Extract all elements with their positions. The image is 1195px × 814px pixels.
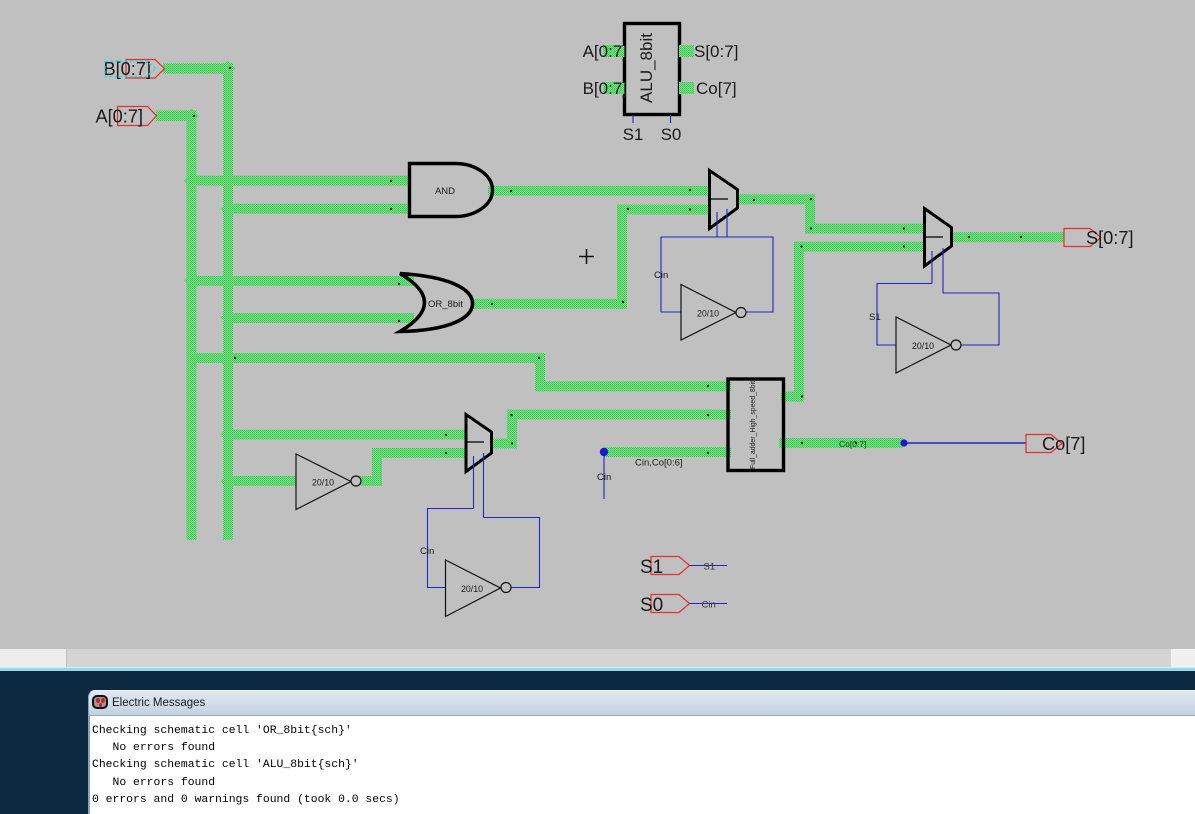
export S1: [651, 557, 690, 575]
wire B export to bus: [163, 63, 233, 74]
wire inverter I4 output: [360, 476, 382, 486]
pin stub S[0:7]: [679, 45, 694, 57]
svg-text:S1: S1: [623, 125, 644, 144]
cursor cross: [579, 249, 594, 264]
svg-text:20/10: 20/10: [312, 478, 334, 488]
wire mux M1 bottom input: [794, 242, 924, 252]
inverter I2 (Cin): [681, 285, 736, 341]
wire mux M2 lower input: [617, 205, 709, 215]
wire blue mux M3 select loop: [428, 509, 540, 588]
export Co[7]: [1026, 435, 1062, 453]
svg-text:A[0:7]: A[0:7]: [583, 42, 627, 61]
svg-text:Cin,Co[0:6]: Cin,Co[0:6]: [635, 458, 683, 469]
wire bus B vertical: [223, 63, 233, 540]
gate AND: [410, 164, 493, 217]
wire inverter I4 input: [223, 476, 296, 486]
svg-text:S0: S0: [661, 125, 682, 144]
svg-text:ALU_8bit: ALU_8bit: [637, 33, 656, 103]
svg-text:Cin: Cin: [702, 600, 716, 611]
node Cin dot: [600, 448, 608, 456]
mux M1: [925, 209, 952, 267]
wire adder input Cin bus: [604, 447, 731, 457]
wire OR output: [471, 299, 627, 309]
gate OR_8bit: [400, 274, 473, 332]
svg-text:20/10: 20/10: [461, 584, 483, 594]
wire mux M3 top input: [223, 430, 465, 440]
wire bus A vertical: [187, 111, 197, 540]
svg-text:Full_adder_High_speed_8bit: Full_adder_High_speed_8bit: [748, 380, 757, 469]
wire mux M2 output: [737, 194, 815, 204]
wire OR input 2: [223, 313, 414, 323]
pin stub S1: [632, 115, 634, 123]
pin stub A[0:7]: [603, 45, 625, 57]
svg-text:AND: AND: [435, 186, 455, 197]
wire AND output to mux M2: [488, 186, 709, 196]
port dots: [193, 67, 1022, 454]
wire adder S output stub: [781, 392, 804, 402]
wire vertical x540: [535, 353, 545, 391]
wire adder Cout output: [779, 438, 903, 448]
svg-text:Cin: Cin: [597, 472, 611, 483]
instance ALU_8bit body: [625, 24, 680, 115]
inverter I3 (Cin mux3): [446, 560, 501, 617]
mux M2: [710, 171, 738, 229]
inverter I4: [296, 454, 351, 510]
instance Full_adder_High_speed_8bit body: [728, 379, 784, 471]
mux M2 select pins: [716, 212, 718, 237]
svg-text:S1: S1: [704, 562, 716, 573]
node Co dot: [900, 439, 907, 446]
wire AND input 2: [223, 204, 409, 214]
pin stub S0: [670, 115, 672, 123]
svg-text:Cin: Cin: [420, 546, 434, 557]
wire blue mux M1 select loop: [877, 284, 999, 346]
wire adder S vertical: [794, 242, 804, 402]
wire elbow vertical to mux M1: [805, 194, 815, 233]
wire S0 blue: [690, 603, 728, 605]
svg-text:S0: S0: [640, 595, 663, 616]
pin stub Co[7]: [679, 82, 694, 94]
wire vertical x512: [507, 410, 517, 449]
svg-text:OR_8bit: OR_8bit: [428, 299, 463, 310]
wire OR to mux M2 vertical: [617, 205, 627, 309]
wire mux M1 top input: [805, 224, 924, 234]
svg-text:Co[0:7]: Co[0:7]: [839, 439, 866, 449]
export S0: [651, 595, 690, 613]
wire adder input B: [507, 410, 731, 420]
svg-text:20/10: 20/10: [912, 341, 934, 351]
svg-text:Co[7]: Co[7]: [696, 79, 737, 98]
wire mux M3 output: [490, 439, 517, 449]
export S[0:7]: [1064, 229, 1101, 247]
mux M3: [466, 415, 492, 472]
wire A bus long horizontal: [187, 353, 546, 363]
wire AND input 1: [187, 176, 409, 186]
wire Cin vertical blue: [603, 455, 605, 499]
svg-text:S[0:7]: S[0:7]: [694, 42, 738, 61]
svg-text:B[0:7]: B[0:7]: [583, 79, 627, 98]
svg-text:Co[7]: Co[7]: [1042, 434, 1085, 454]
svg-text:20/10: 20/10: [697, 309, 719, 319]
wire vertical x377: [372, 448, 382, 486]
highlight dashed B export: [105, 61, 156, 77]
pin stub B[0:7]: [603, 82, 625, 94]
svg-text:A[0:7]: A[0:7]: [96, 107, 144, 127]
wire mux M3 bottom input: [372, 448, 465, 458]
svg-text:Cin: Cin: [654, 270, 668, 281]
mux M3 select pins: [473, 456, 475, 509]
svg-text:S[0:7]: S[0:7]: [1086, 228, 1134, 248]
mux M1 select pins: [931, 251, 933, 284]
wire mux M1 output to S export: [951, 232, 1064, 242]
inverter I1 (S1): [896, 317, 951, 373]
svg-text:S1: S1: [640, 557, 663, 578]
wire OR input 1: [187, 276, 415, 286]
wire A export to bus: [156, 111, 197, 122]
export A[0:7]: [118, 107, 157, 126]
svg-text:S1: S1: [869, 312, 881, 323]
wire blue mux M2 select loop: [661, 237, 773, 312]
wire S1 blue: [690, 565, 728, 567]
wire adder input A: [535, 381, 731, 391]
wire Co blue to export: [906, 442, 1026, 444]
export B[0:7]: [126, 60, 165, 79]
